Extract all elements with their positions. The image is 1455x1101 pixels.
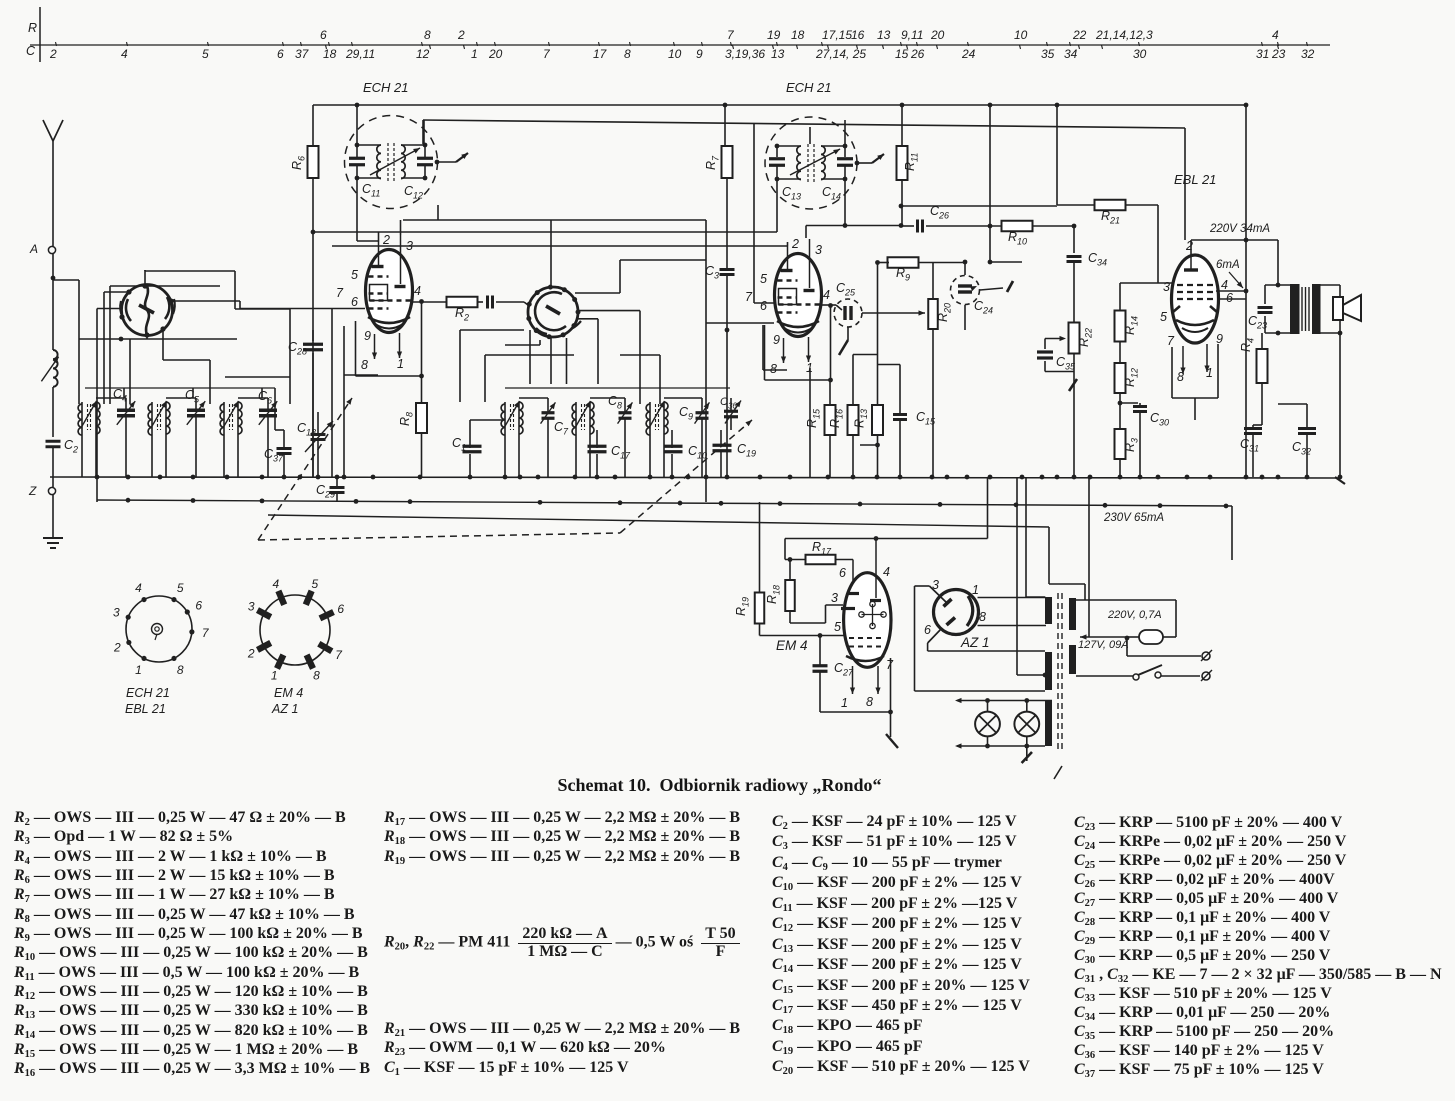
svg-text:6: 6 <box>924 623 931 637</box>
svg-text:10: 10 <box>668 47 682 61</box>
svg-text:13: 13 <box>877 28 891 42</box>
svg-text:4: 4 <box>135 581 142 595</box>
svg-text:5: 5 <box>760 272 767 286</box>
svg-text:EBL 21: EBL 21 <box>125 702 166 716</box>
svg-text:3: 3 <box>113 606 120 620</box>
svg-text:4: 4 <box>272 577 279 591</box>
svg-text:R19: R19 <box>734 597 751 616</box>
svg-text:C31: C31 <box>1240 437 1259 454</box>
svg-text:17,15: 17,15 <box>822 28 852 42</box>
svg-text:C29: C29 <box>316 483 335 500</box>
svg-text:R15: R15 <box>805 408 822 428</box>
svg-text:1: 1 <box>271 668 278 682</box>
svg-text:17: 17 <box>593 47 608 61</box>
svg-text:8: 8 <box>624 47 631 61</box>
svg-text:20: 20 <box>488 47 503 61</box>
svg-text:C23: C23 <box>1248 314 1267 331</box>
svg-text:1: 1 <box>1206 366 1213 380</box>
svg-text:C24: C24 <box>974 299 993 316</box>
svg-text:7: 7 <box>1167 334 1175 348</box>
svg-text:13: 13 <box>771 47 785 61</box>
svg-text:C11: C11 <box>362 182 380 199</box>
svg-text:ECH 21: ECH 21 <box>363 80 409 95</box>
svg-text:31: 31 <box>1256 47 1269 61</box>
svg-text:8: 8 <box>770 362 777 376</box>
svg-text:9: 9 <box>696 47 703 61</box>
svg-text:AZ 1: AZ 1 <box>271 702 298 716</box>
svg-text:1: 1 <box>135 663 142 677</box>
svg-text:EM 4: EM 4 <box>274 686 303 700</box>
svg-text:4: 4 <box>823 288 830 302</box>
svg-text:18: 18 <box>323 47 337 61</box>
svg-text:ECH 21: ECH 21 <box>786 80 832 95</box>
svg-text:23: 23 <box>1271 47 1286 61</box>
svg-text:7: 7 <box>202 626 210 640</box>
svg-text:7: 7 <box>727 28 735 42</box>
svg-text:EBL 21: EBL 21 <box>1174 172 1216 187</box>
svg-text:C8: C8 <box>608 394 622 411</box>
svg-text:26: 26 <box>910 47 925 61</box>
svg-text:R7: R7 <box>704 155 721 170</box>
svg-text:R10: R10 <box>1008 230 1027 247</box>
svg-text:C35: C35 <box>1056 355 1076 372</box>
svg-text:1: 1 <box>397 357 404 371</box>
svg-text:1: 1 <box>972 583 979 597</box>
svg-text:3,19,36: 3,19,36 <box>725 47 765 61</box>
svg-text:8: 8 <box>424 28 431 42</box>
svg-text:3: 3 <box>406 239 413 253</box>
svg-text:16: 16 <box>851 28 865 42</box>
svg-text:9: 9 <box>773 333 780 347</box>
svg-text:C36: C36 <box>720 396 737 411</box>
svg-text:35: 35 <box>1041 47 1055 61</box>
svg-text:C2: C2 <box>64 438 78 455</box>
svg-text:2: 2 <box>791 237 799 251</box>
svg-text:15: 15 <box>895 47 909 61</box>
svg-text:7: 7 <box>745 290 753 304</box>
svg-text:7: 7 <box>336 286 344 300</box>
svg-text:2: 2 <box>113 641 121 655</box>
svg-text:R18: R18 <box>765 585 782 604</box>
svg-text:ECH 21: ECH 21 <box>126 686 170 700</box>
svg-text:34: 34 <box>1064 47 1078 61</box>
svg-text:8: 8 <box>1177 370 1184 384</box>
svg-text:C12: C12 <box>404 184 423 201</box>
svg-text:5: 5 <box>202 47 209 61</box>
svg-text:C13: C13 <box>782 185 801 202</box>
svg-text:6: 6 <box>195 598 202 612</box>
svg-text:8: 8 <box>313 668 320 682</box>
svg-text:C1: C1 <box>452 436 466 453</box>
svg-text:8: 8 <box>177 663 184 677</box>
svg-text:230V 65mA: 230V 65mA <box>1103 512 1164 524</box>
svg-text:6: 6 <box>337 602 344 616</box>
svg-text:10: 10 <box>1014 28 1028 42</box>
svg-text:7: 7 <box>335 648 343 662</box>
svg-text:2: 2 <box>382 233 390 247</box>
svg-text:C3: C3 <box>705 264 719 281</box>
svg-text:19: 19 <box>767 28 781 42</box>
svg-text:9: 9 <box>1216 332 1223 346</box>
svg-text:C14: C14 <box>822 185 841 202</box>
svg-text:8: 8 <box>866 695 873 709</box>
svg-text:24: 24 <box>961 47 976 61</box>
svg-text:C27: C27 <box>834 661 854 678</box>
svg-text:R21: R21 <box>1101 209 1120 226</box>
svg-text:8: 8 <box>979 610 986 624</box>
svg-text:5: 5 <box>1160 310 1167 324</box>
svg-text:R2: R2 <box>455 306 469 323</box>
svg-text:1: 1 <box>841 696 848 710</box>
svg-text:EM 4: EM 4 <box>776 638 808 653</box>
svg-text:1: 1 <box>806 361 813 375</box>
svg-text:4: 4 <box>1272 28 1279 42</box>
svg-text:C32: C32 <box>1292 440 1311 457</box>
svg-text:21,14,12,3: 21,14,12,3 <box>1095 28 1153 42</box>
svg-text:R4: R4 <box>1239 338 1256 352</box>
svg-text:18: 18 <box>791 28 805 42</box>
svg-text:2: 2 <box>1185 239 1193 253</box>
svg-text:R6: R6 <box>290 156 307 170</box>
svg-text:C6: C6 <box>258 389 272 406</box>
svg-text:4: 4 <box>883 565 890 579</box>
svg-text:C30: C30 <box>1150 411 1169 428</box>
svg-text:4: 4 <box>414 284 421 298</box>
svg-text:C4: C4 <box>113 387 127 404</box>
svg-text:2: 2 <box>457 28 465 42</box>
svg-text:4: 4 <box>1221 278 1228 292</box>
svg-text:C25: C25 <box>836 281 856 298</box>
svg-text:5: 5 <box>351 268 358 282</box>
svg-text:A: A <box>29 242 38 256</box>
svg-text:220V, 0,7A: 220V, 0,7A <box>1107 609 1162 621</box>
svg-text:3: 3 <box>831 591 838 605</box>
svg-text:22: 22 <box>1072 28 1087 42</box>
svg-text:32: 32 <box>1301 47 1315 61</box>
svg-text:6: 6 <box>760 299 767 313</box>
svg-text:6: 6 <box>277 47 284 61</box>
svg-text:C28: C28 <box>288 340 307 357</box>
svg-text:AZ 1: AZ 1 <box>960 635 990 650</box>
svg-text:C: C <box>26 44 36 58</box>
svg-text:C17: C17 <box>611 444 631 461</box>
svg-text:2: 2 <box>247 646 255 660</box>
svg-text:6: 6 <box>839 566 846 580</box>
svg-text:3: 3 <box>248 600 255 614</box>
svg-text:1: 1 <box>471 47 478 61</box>
svg-text:12: 12 <box>416 47 430 61</box>
svg-text:6: 6 <box>320 28 327 42</box>
svg-text:30: 30 <box>1133 47 1147 61</box>
svg-text:C34: C34 <box>1088 251 1107 268</box>
svg-text:C9: C9 <box>679 405 693 422</box>
svg-text:220V 34mA: 220V 34mA <box>1209 223 1270 235</box>
svg-text:3: 3 <box>815 243 822 257</box>
svg-text:C10: C10 <box>688 444 707 461</box>
svg-text:5: 5 <box>834 620 841 634</box>
svg-text:29,11: 29,11 <box>345 47 375 61</box>
svg-text:5: 5 <box>177 581 184 595</box>
svg-text:6: 6 <box>1226 291 1233 305</box>
svg-text:R8: R8 <box>398 412 415 426</box>
svg-text:5: 5 <box>312 577 319 591</box>
svg-text:37: 37 <box>295 47 310 61</box>
svg-text:27,14, 25: 27,14, 25 <box>815 47 866 61</box>
svg-text:6mA: 6mA <box>1216 259 1240 271</box>
svg-text:20: 20 <box>930 28 945 42</box>
svg-text:C7: C7 <box>554 420 569 437</box>
svg-text:7: 7 <box>543 47 551 61</box>
svg-text:8: 8 <box>361 358 368 372</box>
svg-text:C19: C19 <box>737 442 756 459</box>
svg-text:9,11: 9,11 <box>901 28 923 42</box>
svg-text:4: 4 <box>121 47 128 61</box>
svg-text:9: 9 <box>364 329 371 343</box>
svg-text:127V, 09A: 127V, 09A <box>1078 639 1129 651</box>
svg-text:Z: Z <box>28 484 37 498</box>
svg-text:R: R <box>28 21 37 35</box>
svg-text:3: 3 <box>1163 280 1170 294</box>
svg-text:2: 2 <box>49 47 57 61</box>
svg-text:6: 6 <box>351 295 358 309</box>
